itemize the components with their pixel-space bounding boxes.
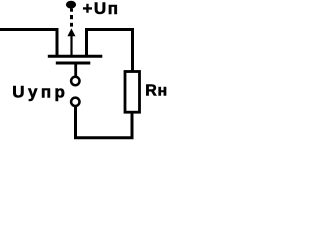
transistor VT channel (top plate) xyxy=(48,55,103,58)
wire arrow shaft to channel plate xyxy=(70,34,72,56)
svg-text:+Uп: +Uп xyxy=(83,0,120,18)
arrow into transistor channel xyxy=(67,28,75,36)
dashed supply lead (dash 3) xyxy=(70,23,73,27)
svg-text:Uупр: Uупр xyxy=(12,83,68,102)
terminal input top circle xyxy=(71,77,79,85)
wire resistor bottom rail to input terminal xyxy=(76,106,133,138)
dashed supply lead (dash 2) xyxy=(70,15,73,19)
terminal input bottom circle xyxy=(71,98,79,106)
wire gate stub xyxy=(74,63,77,76)
svg-text:Rн: Rн xyxy=(145,83,167,100)
wire top-left rail down to transistor source xyxy=(0,30,57,57)
wire drain up to top-right rail and down to resistor xyxy=(87,30,133,72)
transistor VT insulated gate (bottom plate) xyxy=(56,62,91,65)
dashed supply lead (dash under dot) xyxy=(70,9,73,12)
node +Un supply dot xyxy=(66,1,76,9)
resistor Rn xyxy=(125,72,140,113)
